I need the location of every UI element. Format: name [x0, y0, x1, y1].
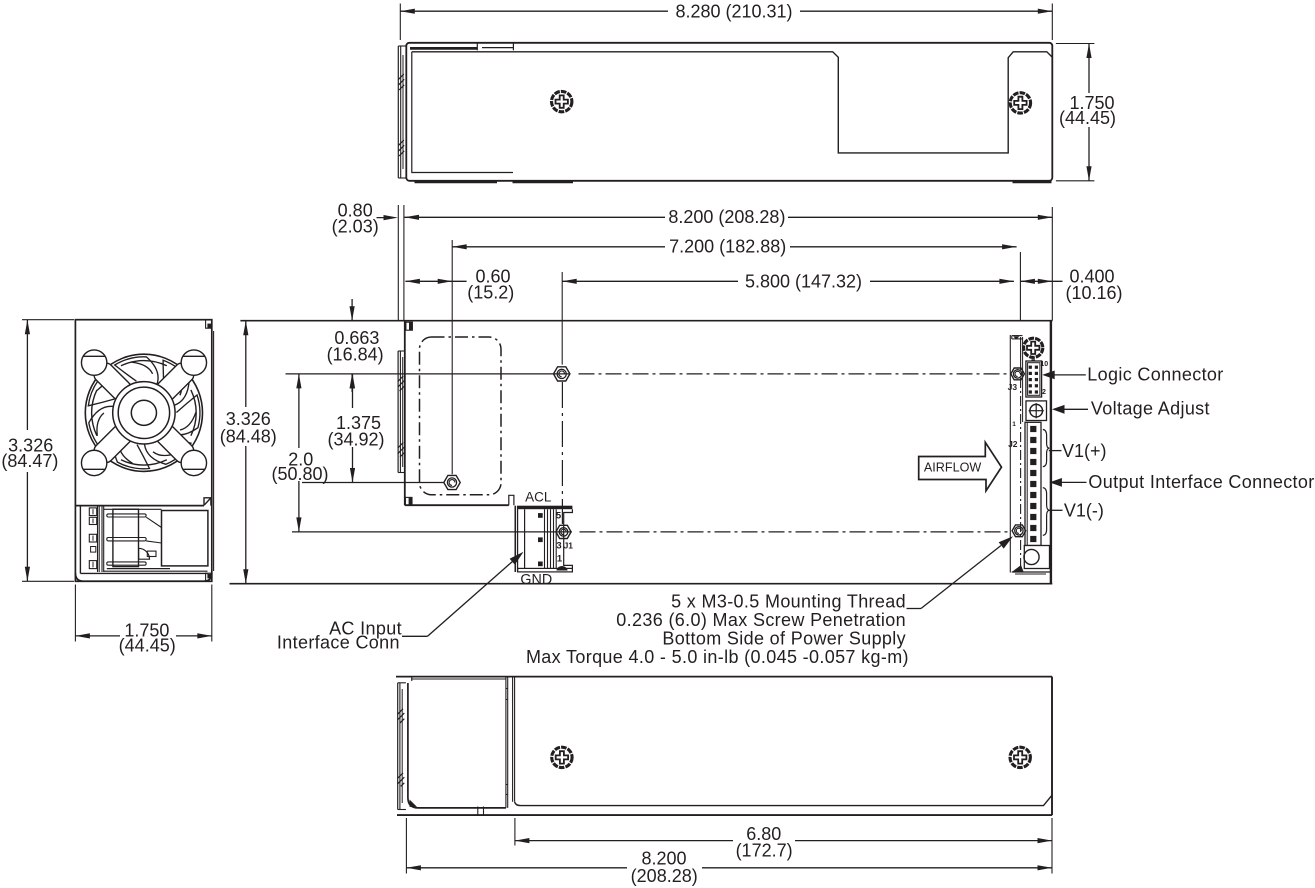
fan blades: [88, 357, 200, 469]
svg-text:(16.84): (16.84): [327, 344, 384, 364]
brace V1(-) pins: [1043, 488, 1050, 536]
front view corner notches: [206, 320, 212, 582]
svg-text:Output Interface Connector: Output Interface Connector: [1088, 472, 1314, 492]
fan hub: [113, 382, 175, 444]
dimension 2.0 (50.80): [271, 374, 328, 532]
AC inlet section (front view): [75, 498, 211, 581]
centerline upper: [286, 373, 1011, 375]
dimension 7.200 (182.88): [452, 237, 1016, 475]
mounting hole M3 at AC connector: [556, 525, 571, 538]
dimension 3.326 (84.47) front view: [1, 320, 74, 582]
svg-text:8.200 (208.28): 8.200 (208.28): [668, 207, 785, 227]
logic connector J3: [1026, 359, 1048, 397]
screw on rear panel: [1024, 338, 1043, 357]
note: mounting thread specification: [526, 592, 909, 667]
label AC Input Interface Conn: [277, 552, 524, 653]
mounting hole M3 center-left: [444, 475, 460, 489]
leader from note to mounting hole: [907, 536, 1014, 608]
svg-text:1: 1: [1012, 421, 1016, 428]
svg-text:(50.80): (50.80): [271, 464, 328, 484]
svg-text:7.200 (182.88): 7.200 (182.88): [669, 237, 786, 257]
svg-text:8.280 (210.31): 8.280 (210.31): [675, 1, 792, 21]
brace V1(+) pins: [1043, 430, 1050, 467]
dimension 5.800 (147.32): [562, 271, 1014, 364]
svg-text:2: 2: [1042, 389, 1046, 396]
screw left (bottom view): [552, 747, 572, 767]
svg-text:Bottom Side of Power Supply: Bottom Side of Power Supply: [662, 628, 906, 648]
bottom view outline: [396, 677, 1052, 816]
svg-text:Interface Conn: Interface Conn: [277, 633, 400, 653]
top view inner cover contour with notch: [412, 52, 1053, 173]
top view: dimension 1.750 (44.45): [1056, 44, 1116, 181]
output interface connector J2: [1012, 421, 1041, 546]
svg-text:3: 3: [556, 540, 561, 551]
top view bottom edge trim segments: [415, 181, 1052, 184]
screw right (bottom view): [1010, 747, 1030, 767]
svg-text:(2.03): (2.03): [332, 217, 379, 237]
svg-text:Logic Connector: Logic Connector: [1087, 364, 1223, 384]
svg-text:GND: GND: [520, 572, 552, 588]
screw left (top view): [552, 91, 572, 111]
AC input connector J1 (side profile): [515, 506, 573, 572]
svg-text:(84.48): (84.48): [220, 426, 277, 446]
svg-text:5: 5: [556, 511, 562, 522]
svg-text:J1: J1: [564, 540, 574, 550]
label Output Interface Connector: [1049, 472, 1314, 492]
svg-text:(15.2): (15.2): [467, 283, 514, 303]
dimension 0.80 (2.03): [332, 201, 404, 321]
mounting hole extension line (1.375): [302, 482, 444, 484]
top view left fan flange strip: [398, 46, 406, 178]
svg-text:V1(-): V1(-): [1064, 500, 1104, 520]
svg-text:Max Torque 4.0 - 5.0 in-lb (0.: Max Torque 4.0 - 5.0 in-lb (0.045 -0.057…: [526, 647, 909, 667]
svg-text:(172.7): (172.7): [736, 841, 793, 861]
svg-text:J2: J2: [1008, 439, 1018, 449]
label Voltage Adjust: [1052, 399, 1210, 419]
mounting hole M3 upper-right: [1011, 368, 1025, 380]
svg-text:ACL: ACL: [525, 490, 552, 505]
dimension 0.60 (15.2): [405, 267, 514, 303]
top view: dimension 8.280 (210.31): [400, 1, 1052, 40]
bottom view fan flange strip: [397, 683, 406, 810]
svg-text:AIRFLOW: AIRFLOW: [924, 460, 981, 474]
voltage adjust potentiometer: [1026, 401, 1047, 421]
top view outline: [406, 43, 1052, 181]
dimension 3.326 (84.48): [220, 321, 277, 584]
middle view outline: [230, 321, 1053, 584]
top mounting bracket (right panel): [1012, 336, 1023, 340]
svg-text:5.800 (147.32): 5.800 (147.32): [745, 271, 862, 291]
dimension 8.200 (208.28): [405, 207, 1053, 321]
centerline lower: [292, 531, 1011, 533]
middle view chassis tabs: [405, 322, 514, 505]
svg-text:(208.28): (208.28): [631, 866, 698, 886]
dimension 0.400 (10.16): [1020, 252, 1122, 321]
dimension 1.375 (34.92): [327, 374, 384, 483]
mounting hole M3 lower-right: [1012, 525, 1026, 537]
bottom view inner cover (left section): [408, 677, 1052, 816]
AIRFLOW block arrow: [919, 442, 1002, 491]
svg-text:(34.92): (34.92): [327, 430, 384, 450]
fan outer ring: [85, 354, 202, 471]
top view top edge cover lines: [410, 43, 513, 51]
svg-text:5 x M3-0.5 Mounting Thread: 5 x M3-0.5 Mounting Thread: [671, 592, 906, 612]
fan struts: [91, 360, 196, 465]
dimension 8.200 (208.28) bottom: [406, 818, 1052, 886]
middle view fan flange strip: [398, 351, 405, 473]
vertical centerline between mounting holes: [561, 382, 563, 524]
mounting hole M3 upper-left: [554, 367, 570, 381]
label V1(-): [1049, 500, 1104, 520]
fan corner lobes: [81, 350, 206, 476]
label Logic Connector: [1042, 364, 1223, 384]
dimension 6.80 (172.7): [515, 818, 1052, 874]
fan guard ring arcs: [92, 361, 197, 466]
svg-text:(44.45): (44.45): [119, 635, 176, 655]
dimension 0.663 (16.84): [327, 299, 384, 392]
svg-text:0.236 (6.0) Max Screw Penetrat: 0.236 (6.0) Max Screw Penetration: [616, 610, 906, 630]
screw right (top view): [1010, 93, 1030, 113]
dashed internal cutout (middle view): [420, 337, 502, 495]
svg-text:1: 1: [557, 553, 563, 564]
output panel verticals: [1010, 335, 1022, 573]
label V1(+): [1049, 441, 1107, 461]
bottom foot bracket (right panel): [1012, 565, 1050, 574]
svg-text:(10.16): (10.16): [1065, 283, 1122, 303]
dimension 1.750 (44.45) front view: [75, 585, 211, 656]
svg-text:10: 10: [1040, 361, 1048, 368]
svg-text:Voltage Adjust: Voltage Adjust: [1091, 399, 1210, 419]
svg-text:J3: J3: [1008, 382, 1018, 392]
bottom connector block with hole: [1024, 546, 1050, 569]
svg-text:(84.47): (84.47): [1, 451, 58, 471]
front view outline: [75, 320, 213, 582]
svg-text:(44.45): (44.45): [1059, 108, 1116, 128]
svg-text:V1(+): V1(+): [1062, 441, 1107, 461]
